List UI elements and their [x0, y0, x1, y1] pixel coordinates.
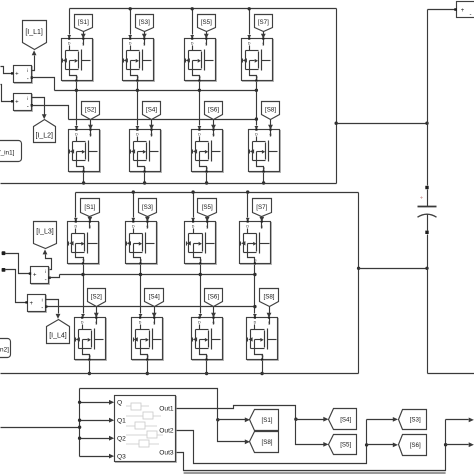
from tag [S1] — [81, 199, 100, 222]
wire section1 midpoint bus — [55, 90, 257, 92]
wire section1 midpoint verticals — [76, 81, 78, 91]
svg-text:+: + — [420, 196, 423, 202]
svg-text:[S8]: [S8] — [265, 107, 276, 114]
from tag [S8] — [262, 102, 280, 130]
svg-text:i: i — [42, 298, 43, 303]
from tag [S7] — [253, 199, 272, 222]
goto tag [I_L2] — [34, 120, 56, 143]
svg-text:+: + — [461, 8, 465, 14]
svg-text:[S1]: [S1] — [84, 204, 95, 211]
mosfet Q2 low B — [132, 317, 164, 361]
wire Q feed — [1, 427, 80, 429]
from tag [S3] — [139, 199, 157, 222]
svg-text:[S4]: [S4] — [149, 293, 160, 300]
svg-text:[I_L2]: [I_L2] — [35, 132, 53, 139]
wire right riser x358 — [358, 193, 360, 374]
from tag [S5] — [198, 199, 217, 222]
svg-text:+: + — [15, 72, 19, 78]
wire Out2 to S3/S6 — [177, 420, 367, 464]
svg-text:D: D — [132, 225, 135, 229]
wire input 2 — [1, 85, 13, 102]
svg-text:D: D — [246, 225, 249, 229]
mosfet Q2 high B — [126, 220, 158, 264]
mosfet Q3 high A — [185, 38, 217, 82]
port square in3 — [2, 251, 6, 255]
svg-text:D: D — [139, 321, 142, 325]
from tag [S4] — [143, 102, 161, 130]
svg-text:[S7]: [S7] — [258, 19, 269, 26]
from tag [S1] — [75, 15, 93, 39]
goto tag [S3] — [399, 410, 427, 430]
wire section2 bottom drops — [89, 360, 91, 374]
svg-text:Out2: Out2 — [159, 428, 174, 435]
mosfet Q3 low B — [192, 317, 224, 361]
mosfet Q1 low A — [69, 129, 101, 173]
svg-text:+: + — [30, 301, 34, 307]
svg-text:[S6]: [S6] — [208, 293, 219, 300]
svg-text:D: D — [74, 225, 77, 229]
svg-text:+: + — [15, 99, 19, 105]
mosfet Q4 low A — [249, 129, 281, 173]
wire section2 drain risers — [75, 193, 77, 218]
wire I2 to I_L2 — [32, 98, 45, 115]
mosfet Q3 low A — [192, 129, 224, 173]
wire to Q3 — [80, 456, 110, 458]
svg-text:i: i — [27, 96, 28, 101]
wire section1 lower line — [69, 119, 257, 121]
svg-text:D: D — [192, 225, 195, 229]
svg-text:Q2: Q2 — [117, 435, 126, 442]
wire I4 minus to lower line — [46, 306, 47, 308]
svg-text:D: D — [81, 321, 84, 325]
mosfet Q1 high B — [68, 220, 100, 264]
svg-text:-: - — [45, 277, 47, 283]
subsystem pulse generator — [115, 396, 177, 463]
svg-text:[S2]: [S2] — [91, 293, 102, 300]
from tag [S3] — [136, 15, 154, 39]
wire I4 to I_L4 — [46, 300, 59, 314]
goto tag [I_L4] — [47, 320, 70, 344]
svg-text:[S5]: [S5] — [202, 204, 213, 211]
svg-text:-: - — [470, 12, 472, 18]
wire section1 drain risers — [69, 9, 71, 35]
svg-text:[V_in1]: [V_in1] — [0, 150, 15, 157]
svg-text:[S7]: [S7] — [256, 204, 267, 211]
svg-text:D: D — [248, 42, 251, 46]
goto tag [I_L3] — [34, 222, 57, 249]
svg-text:i: i — [45, 269, 46, 274]
wire Q distribution vertical — [79, 389, 81, 457]
mosfet Q2 low A — [130, 129, 162, 173]
svg-text:[V_in2]: [V_in2] — [0, 347, 9, 354]
svg-text:D: D — [191, 42, 194, 46]
from tag [S2] — [88, 289, 106, 318]
wire cap top link — [337, 123, 428, 125]
svg-text:D: D — [198, 133, 201, 137]
wire section2 top bus — [76, 192, 359, 194]
capacitor C1 — [418, 186, 437, 234]
svg-text:D: D — [136, 133, 139, 137]
wire section2 bottom bus — [1, 373, 359, 375]
wire I1 to I_L1 — [32, 56, 35, 71]
wire I3 minus to midbus — [50, 275, 60, 278]
goto tag [I_L1] — [23, 21, 47, 50]
svg-text:-: - — [41, 306, 43, 312]
svg-text:[S1]: [S1] — [261, 417, 272, 424]
svg-text:D: D — [255, 133, 258, 137]
wire input 1 — [1, 67, 13, 74]
wire input 4 — [6, 270, 27, 303]
junction top bus — [129, 7, 132, 10]
current measurement I2 — [11, 94, 33, 112]
svg-text:[S5]: [S5] — [340, 442, 351, 449]
svg-text:-: - — [27, 104, 29, 110]
svg-text:D: D — [68, 42, 71, 46]
from tag [S2] — [82, 102, 100, 130]
svg-text:[S8]: [S8] — [263, 293, 274, 300]
wire section1 bottom drops — [83, 172, 85, 184]
mosfet Q1 low B — [75, 317, 107, 361]
from tag [S4] — [145, 289, 164, 318]
from tag [S6] — [205, 289, 223, 318]
goto tag [S6] — [399, 435, 427, 456]
svg-text:[S4]: [S4] — [146, 107, 157, 114]
wire input 3 — [6, 254, 30, 274]
goto tag [S4] — [329, 409, 357, 430]
current measurement I3 — [29, 267, 51, 285]
svg-text:[I_L4]: [I_L4] — [49, 332, 67, 339]
svg-text:+: + — [33, 273, 37, 279]
mosfet Q3 high B — [185, 220, 217, 264]
goto tag [S8] — [250, 432, 279, 453]
svg-text:Out1: Out1 — [159, 405, 174, 412]
wire to right edge — [428, 373, 474, 375]
svg-text:-: - — [27, 76, 29, 82]
svg-text:[S1]: [S1] — [78, 19, 89, 26]
svg-text:D: D — [198, 321, 201, 325]
current measurement I4 — [25, 295, 47, 313]
svg-text:D: D — [254, 321, 257, 325]
window edge bar — [184, 472, 446, 474]
current measurement I1 — [11, 66, 33, 84]
wire right riser x336 — [336, 9, 338, 184]
wire cap vertical bottom — [427, 235, 429, 269]
voltage source tag V_in2 — [0, 339, 11, 358]
svg-text:[S2]: [S2] — [85, 107, 96, 114]
svg-text:[I_L1]: [I_L1] — [25, 29, 43, 36]
svg-text:[S4]: [S4] — [340, 416, 351, 423]
wire to Q1 — [80, 420, 110, 422]
mosfet Q4 high B — [240, 220, 272, 264]
svg-text:Q: Q — [117, 400, 122, 407]
svg-text:[S6]: [S6] — [208, 107, 219, 114]
from tag [S7] — [255, 15, 273, 39]
svg-text:i: i — [27, 68, 28, 73]
wire cap vertical mid — [427, 124, 429, 186]
mosfet Q1 high A — [62, 38, 94, 82]
wire I1 minus to midbus — [32, 78, 55, 91]
svg-text:[S3]: [S3] — [142, 204, 153, 211]
svg-text:D: D — [129, 42, 132, 46]
wire cap bottom link — [359, 268, 428, 270]
goto tag [S1] — [250, 410, 279, 431]
wire section2 midpoint bus — [60, 274, 255, 276]
svg-text:[S5]: [S5] — [201, 19, 212, 26]
junction midpoint bus — [75, 89, 78, 92]
wire to Q — [80, 402, 110, 404]
wire top distribution to S1/S8 — [80, 389, 218, 420]
mosfet Q4 low B — [247, 317, 279, 361]
wire I2 minus to lower line — [32, 106, 69, 120]
wire section1 bottom bus — [1, 183, 337, 185]
wire section2 midpoint verticals — [83, 264, 85, 275]
from tag [S8] — [260, 289, 279, 318]
from tag [S5] — [198, 15, 216, 39]
svg-text:D: D — [75, 133, 78, 137]
from tag [S6] — [205, 102, 223, 130]
port square in4 — [2, 268, 6, 272]
wire top bus — [70, 8, 337, 10]
wire cap vertical top — [427, 10, 429, 124]
svg-text:Q1: Q1 — [117, 417, 126, 424]
wire Out3 to scopes — [177, 420, 446, 471]
svg-text:[S8]: [S8] — [261, 439, 272, 446]
svg-text:[I_L3]: [I_L3] — [36, 229, 54, 236]
svg-text:[S3]: [S3] — [139, 19, 150, 26]
wire I3 to I_L3 — [46, 255, 52, 270]
svg-text:Q3: Q3 — [117, 453, 126, 460]
svg-text:[S6]: [S6] — [410, 442, 421, 449]
svg-text:[S3]: [S3] — [410, 417, 421, 424]
wire Out1 to S4/S5 — [177, 406, 296, 420]
wire section2 lower line — [46, 306, 255, 308]
svg-text:Out3: Out3 — [159, 450, 174, 457]
mosfet Q4 high A — [242, 38, 274, 82]
goto tag [S5] — [329, 435, 357, 455]
voltage source tag V_in1 — [0, 141, 22, 162]
wire to Q2 — [80, 438, 110, 440]
mosfet Q2 high A — [123, 38, 155, 82]
voltage measurement Vout — [454, 2, 474, 19]
